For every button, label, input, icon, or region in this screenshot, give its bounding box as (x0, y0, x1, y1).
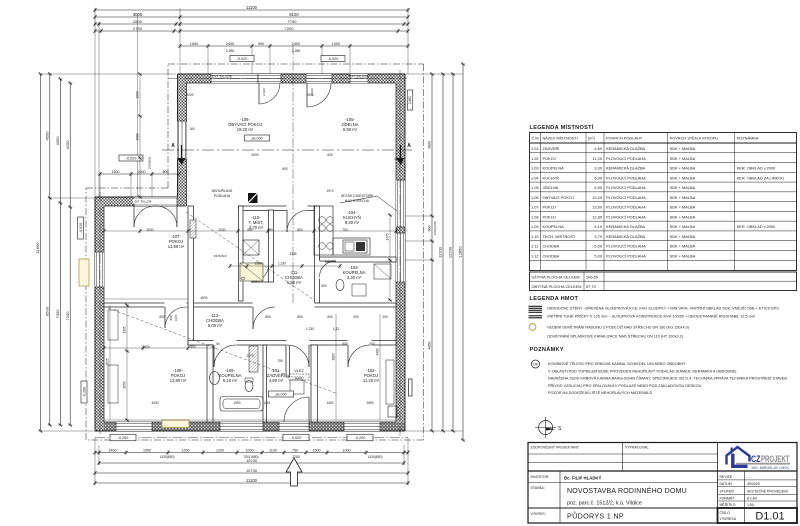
corner fixture room 102 (388, 406, 397, 417)
svg-text:630: 630 (327, 153, 333, 157)
svg-text:1260(1060): 1260(1060) (433, 221, 437, 235)
svg-text:19,20 m²: 19,20 m² (237, 127, 254, 132)
svg-text:PŮDORYS 1.NP: PŮDORYS 1.NP (567, 512, 624, 521)
svg-text:DB: DB (533, 363, 537, 367)
svg-text:1.03: 1.03 (531, 166, 539, 171)
svg-text:PLOVOUCÍ PODLAHA: PLOVOUCÍ PODLAHA (606, 205, 646, 210)
svg-text:VLEZ: VLEZ (294, 369, 304, 373)
svg-text:13,90 m²: 13,90 m² (168, 244, 185, 249)
svg-text:8100: 8100 (289, 12, 299, 17)
axis lines (168, 78, 407, 80)
svg-text:500: 500 (321, 284, 327, 288)
svg-text:NEHOŘLAVÁ: NEHOŘLAVÁ (212, 188, 233, 193)
interior wall vert 109|101 (263, 345, 267, 422)
interior wall vert 107|112 (188, 206, 194, 345)
svg-text:1.07: 1.07 (531, 205, 539, 210)
svg-text:VĚTRÁNÍ: VĚTRÁNÍ (213, 253, 226, 258)
shower tech room (240, 263, 263, 281)
svg-text:-0,020: -0,020 (126, 156, 137, 160)
svg-text:2625: 2625 (106, 358, 110, 365)
svg-text:5,50 m²: 5,50 m² (287, 280, 302, 285)
svg-text:POKOJ: POKOJ (543, 214, 556, 219)
svg-text:3,30 m²: 3,30 m² (347, 275, 362, 280)
svg-text:5x: 5x (216, 342, 220, 346)
svg-text:KER. OBKLAD v.2000: KER. OBKLAD v.2000 (737, 224, 776, 229)
door 103 (320, 260, 337, 262)
svg-text:KERAMICKÁ DLAŽBA: KERAMICKÁ DLAŽBA (606, 146, 646, 151)
svg-text:1430(850): 1430(850) (159, 455, 174, 459)
symbol radon circle (529, 324, 536, 331)
svg-text:KUCHYŇ: KUCHYŇ (543, 175, 560, 180)
svg-text:70/60: 70/60 (295, 376, 304, 380)
svg-text:LEGENDA HMOT: LEGENDA HMOT (530, 296, 579, 302)
radiator 109 (249, 346, 258, 372)
svg-text:900: 900 (353, 315, 359, 319)
svg-text:SDK + MALBA: SDK + MALBA (670, 156, 696, 161)
svg-text:-0,280: -0,280 (82, 387, 86, 397)
svg-text:1000: 1000 (343, 448, 351, 452)
svg-text:1970: 1970 (174, 314, 178, 321)
svg-text:NOVOSTAVBA RODINNÉHO DOMU: NOVOSTAVBA RODINNÉHO DOMU (567, 486, 687, 495)
totals table (530, 272, 797, 291)
bottom axis dash-dot (95, 437, 408, 439)
svg-text:SDK + MALBA: SDK + MALBA (670, 253, 696, 258)
svg-text:KERAMICKÁ DLAŽBA: KERAMICKÁ DLAŽBA (606, 166, 646, 171)
svg-text:A: A (171, 143, 175, 149)
svg-text:DATUM: DATUM (720, 482, 732, 486)
svg-text:900: 900 (258, 42, 264, 46)
svg-text:1500(800): 1500(800) (148, 157, 152, 170)
svg-text:3,70: 3,70 (594, 234, 602, 239)
door top 2 opening (306, 74, 332, 83)
notch double door swings (133, 206, 135, 227)
svg-text:PLOVOUCÍ PODLAHA: PLOVOUCÍ PODLAHA (606, 214, 646, 219)
section marker A left (181, 145, 183, 158)
svg-text:8 x A4: 8 x A4 (747, 496, 757, 500)
svg-text:6,90: 6,90 (594, 185, 602, 190)
svg-text:KERAMICKÁ DLAŽBA: KERAMICKÁ DLAŽBA (606, 234, 646, 239)
svg-text:700: 700 (342, 228, 348, 232)
svg-text:ZODPOVĚDNÝ PROJEKTANT:: ZODPOVĚDNÝ PROJEKTANT: (531, 445, 580, 450)
symbol partition (529, 315, 543, 317)
interior wall corridor bottom (188, 341, 396, 346)
svg-text:4250: 4250 (65, 140, 70, 150)
svg-text:±0,000: ±0,000 (251, 136, 263, 140)
svg-text:11600: 11600 (35, 242, 40, 254)
svg-text:3050: 3050 (123, 381, 127, 388)
svg-text:VYPRACOVAL:: VYPRACOVAL: (625, 446, 649, 450)
svg-text:7300: 7300 (55, 309, 60, 319)
door 111 from living (286, 210, 288, 232)
svg-text:2750: 2750 (133, 26, 143, 31)
svg-text:800: 800 (297, 228, 303, 232)
svg-text:4630: 4630 (200, 296, 207, 300)
svg-text:poz. parc.č. 1512/2, k.ú. Vild: poz. parc.č. 1512/2, k.ú. Vildice (567, 501, 642, 507)
svg-text:12,80: 12,80 (592, 214, 603, 219)
svg-text:1500: 1500 (112, 170, 120, 174)
svg-text:1.02: 1.02 (531, 156, 539, 161)
svg-text:200: 200 (369, 342, 375, 346)
section marker A right (400, 145, 402, 158)
svg-text:-0,020: -0,020 (237, 57, 248, 61)
ext zaluzie box right wall (409, 379, 413, 396)
svg-text:1305: 1305 (123, 326, 127, 333)
svg-text:ODTAH DIGESTOŘE: ODTAH DIGESTOŘE (341, 193, 374, 198)
svg-text:REVIZE: REVIZE (720, 475, 733, 479)
svg-text:OBYTNÁ PLOCHA CELKEM: OBYTNÁ PLOCHA CELKEM (532, 284, 582, 289)
svg-text:7700: 7700 (288, 19, 298, 24)
svg-text:2690: 2690 (366, 401, 373, 405)
svg-text:3800: 3800 (332, 353, 336, 360)
svg-text:13,90: 13,90 (592, 205, 603, 210)
svg-text:600: 600 (282, 167, 288, 171)
svg-text:SDK + MALBA: SDK + MALBA (670, 234, 696, 239)
svg-text:3430: 3430 (151, 401, 158, 405)
svg-text:1970: 1970 (326, 189, 333, 193)
svg-text:11700: 11700 (438, 246, 443, 258)
svg-text:POZNÁMKY: POZNÁMKY (530, 346, 564, 353)
svg-text:1.06: 1.06 (531, 195, 539, 200)
svg-text:1000: 1000 (190, 42, 198, 46)
svg-text:1.04: 1.04 (531, 175, 539, 180)
sink 109 (210, 372, 220, 385)
svg-text:KOUPELNA: KOUPELNA (543, 166, 565, 171)
svg-text:ING. MIROSLAV CHOC: ING. MIROSLAV CHOC (752, 466, 791, 470)
svg-text:SDK + MALBA: SDK + MALBA (670, 166, 696, 171)
svg-text:2,280: 2,280 (292, 49, 301, 53)
svg-text:PLOVOUCÍ PODLAHA: PLOVOUCÍ PODLAHA (606, 175, 646, 180)
svg-text:19,20: 19,20 (592, 195, 603, 200)
svg-text:3135: 3135 (289, 252, 296, 256)
svg-text:PLOVOUCÍ PODLAHA: PLOVOUCÍ PODLAHA (606, 185, 646, 190)
svg-text:D1.01: D1.01 (755, 511, 784, 523)
svg-text:-0,020: -0,020 (291, 436, 302, 440)
north symbol (539, 421, 553, 435)
svg-text:KER. OBKLAD ZA LINKOU: KER. OBKLAD ZA LINKOU (737, 175, 785, 180)
svg-text:JÍDELNA: JÍDELNA (543, 185, 559, 190)
furniture rects (108, 310, 118, 340)
svg-text:PLOVOUCÍ PODLAHA: PLOVOUCÍ PODLAHA (606, 156, 646, 161)
svg-text:V OBLASTI POD TOPIDLEM BUDE PR: V OBLASTI POD TOPIDLEM BUDE PROVEDEN NEH… (548, 368, 737, 373)
svg-text:11100: 11100 (246, 478, 258, 483)
svg-text:PŘÍVOD VZDUCHU PRO SPALOVÁNÍ V: PŘÍVOD VZDUCHU PRO SPALOVÁNÍ V PODLAZE N… (548, 383, 702, 388)
svg-text:750: 750 (292, 448, 298, 452)
svg-text:1500: 1500 (136, 133, 140, 140)
svg-text:2030: 2030 (218, 228, 225, 232)
interior wall kitchen|103 (320, 257, 397, 262)
svg-text:NAVRŽENA JSOU KRBOVÁ KAMNA BAA: NAVRŽENA JSOU KRBOVÁ KAMNA BAAS+SOHN ČÍM… (548, 376, 787, 381)
svg-text:900: 900 (342, 342, 348, 346)
svg-text:SKUTEČNÉ PROVEDENÍ: SKUTEČNÉ PROVEDENÍ (747, 488, 788, 493)
svg-text:4800: 4800 (428, 141, 432, 149)
washer zadveri (290, 380, 304, 394)
interior wall top of 110/111 (239, 206, 315, 211)
legend table (530, 133, 797, 271)
svg-text:1,230: 1,230 (306, 327, 314, 331)
svg-text:800: 800 (169, 315, 173, 320)
bath 103 fixtures (336, 280, 344, 291)
svg-text:NÁZEV MÍSTNOSTI: NÁZEV MÍSTNOSTI (543, 136, 578, 141)
svg-text:1200: 1200 (216, 448, 224, 452)
svg-text:160: 160 (189, 127, 195, 131)
exterior wall left lower (95, 197, 104, 431)
svg-text:SDK + MALBA: SDK + MALBA (670, 195, 696, 200)
svg-text:SDK + MALBA: SDK + MALBA (670, 214, 696, 219)
svg-text:1430(850): 1430(850) (367, 455, 382, 459)
svg-text:FORMÁT: FORMÁT (720, 496, 736, 500)
left dimension columns (40, 74, 42, 431)
interior vertical dim chains (126, 305, 128, 420)
svg-text:ZÁDVEŘÍ: ZÁDVEŘÍ (543, 146, 561, 151)
svg-text:57,70: 57,70 (586, 284, 597, 289)
svg-text:STAVBA:: STAVBA: (531, 486, 545, 490)
svg-text:2000: 2000 (186, 93, 193, 97)
top dimension rows (95, 9, 408, 11)
svg-text:CZ: CZ (751, 454, 761, 465)
svg-text:Bc. FILIP HLADKÝ: Bc. FILIP HLADKÝ (564, 476, 602, 481)
svg-text:4850: 4850 (428, 342, 432, 350)
svg-text:OBVODOVÉ STĚNY –DŘEVĚNÁ SLOUPK: OBVODOVÉ STĚNY –DŘEVĚNÁ SLOUPKOVÁ KCE, K… (547, 306, 779, 311)
svg-text:VÝKRESU: VÝKRESU (720, 517, 737, 521)
svg-text:SDK + MALBA: SDK + MALBA (670, 146, 696, 151)
svg-text:8500: 8500 (44, 306, 49, 316)
svg-text:1500: 1500 (138, 170, 146, 174)
svg-text:1500: 1500 (313, 448, 321, 452)
kitchen sink (343, 240, 367, 253)
thick box cislo vykresu (718, 508, 798, 523)
svg-text:PLOVOUCÍ PODLAHA: PLOVOUCÍ PODLAHA (606, 253, 646, 258)
svg-text:4500: 4500 (44, 131, 49, 141)
interior wall vert 108|109 (207, 345, 213, 422)
svg-text:10230: 10230 (246, 458, 258, 463)
svg-text:1450: 1450 (326, 401, 333, 405)
exterior wall right (396, 74, 405, 431)
svg-text:POZNÁMKA: POZNÁMKA (737, 136, 759, 141)
svg-text:PLOVOUCÍ PODLAHA: PLOVOUCÍ PODLAHA (606, 244, 646, 249)
window top 2 (ext zaluzie) (350, 74, 368, 83)
door 109 (213, 345, 215, 367)
svg-text:600: 600 (247, 228, 253, 232)
door top 1 opening (258, 74, 281, 83)
svg-text:KOUPELNA: KOUPELNA (543, 224, 565, 229)
svg-text:-0,200: -0,200 (355, 436, 366, 440)
entrance arrow (286, 458, 302, 486)
svg-text:05/2025: 05/2025 (747, 482, 760, 486)
svg-text:-0,020: -0,020 (79, 223, 83, 233)
interior wall 111|kitchen (315, 206, 320, 303)
door 102 (347, 345, 349, 367)
svg-text:1075: 1075 (246, 354, 253, 358)
svg-text:6000: 6000 (394, 157, 401, 161)
svg-text:11,20 m²: 11,20 m² (363, 378, 380, 383)
door top 1 swing (258, 83, 260, 104)
svg-text:200: 200 (382, 315, 388, 319)
interior wall corridor top (104, 303, 396, 307)
svg-text:2400: 2400 (226, 42, 234, 46)
svg-text:106,50: 106,50 (586, 275, 599, 280)
svg-text:POVRCH STĚN A STROPU: POVRCH STĚN A STROPU (670, 136, 719, 141)
svg-text:6,30: 6,30 (594, 175, 602, 180)
svg-text:ODVĚTRÁNÍ SPLAŠKOVÉ KANALIZACE: ODVĚTRÁNÍ SPLAŠKOVÉ KANALIZACE NAD STŘEC… (547, 334, 684, 339)
svg-text:7200: 7200 (285, 26, 295, 31)
svg-text:1.05: 1.05 (531, 185, 539, 190)
svg-text:CHODBA: CHODBA (543, 244, 560, 249)
svg-text:1380: 1380 (254, 262, 261, 266)
svg-text:1470: 1470 (386, 233, 390, 240)
svg-text:6,90 m²: 6,90 m² (343, 127, 358, 132)
svg-text:1.09: 1.09 (531, 224, 539, 229)
svg-text:TECH. MÍSTNOST: TECH. MÍSTNOST (543, 234, 576, 239)
svg-text:12850: 12850 (458, 246, 463, 258)
svg-text:4300: 4300 (55, 136, 60, 146)
svg-text:POZOR NA DODRŽENÍ LÍŠTĚ NEHOŘL: POZOR NA DODRŽENÍ LÍŠTĚ NEHOŘLAVÝCH MATE… (548, 390, 653, 395)
svg-text:1,230: 1,230 (278, 262, 286, 266)
svg-text:1250: 1250 (182, 448, 190, 452)
wall outlines (178, 73, 406, 75)
svg-text:2800: 2800 (133, 19, 143, 24)
entrance door swing (308, 397, 310, 422)
svg-text:VÝKRES:: VÝKRES: (531, 512, 546, 516)
svg-text:2400: 2400 (292, 42, 300, 46)
interior wall vert 101|102 (311, 345, 318, 422)
small interior dim lines (104, 230, 396, 232)
section line A-A (162, 149, 412, 151)
kitchen counter L (314, 206, 333, 255)
svg-text:1.01: 1.01 (531, 146, 539, 151)
svg-text:NAD STŘECHU: NAD STŘECHU (345, 198, 370, 203)
exterior wall top (178, 74, 406, 83)
svg-text:11,20: 11,20 (593, 156, 603, 161)
svg-text:900: 900 (428, 226, 432, 232)
windows right wall (396, 180, 405, 227)
interior wall 110|111 (269, 210, 274, 282)
notch top dims (100, 173, 179, 175)
svg-text:1.10: 1.10 (531, 234, 539, 239)
svg-text:1950: 1950 (233, 401, 240, 405)
svg-text:10730: 10730 (246, 468, 258, 473)
svg-text:1500: 1500 (143, 448, 151, 452)
svg-text:2,020: 2,020 (262, 88, 266, 96)
svg-text:SDK + MALBA: SDK + MALBA (670, 205, 696, 210)
shower 103 (374, 264, 391, 279)
svg-text:POKOJ: POKOJ (543, 156, 556, 161)
svg-text:3,30: 3,30 (594, 166, 602, 171)
diagonal leaders (186, 212, 314, 300)
door 110 (251, 281, 269, 283)
title block (528, 443, 797, 524)
svg-text:5,50: 5,50 (594, 244, 602, 249)
svg-text:800: 800 (163, 170, 169, 174)
svg-text:12200: 12200 (448, 246, 453, 258)
svg-text:2,860: 2,860 (408, 96, 412, 105)
left boxed labels (78, 217, 84, 239)
svg-text:4,60: 4,60 (594, 146, 602, 151)
svg-text:SDK + MALBA: SDK + MALBA (670, 224, 696, 229)
door top 2 swing (306, 83, 308, 107)
svg-text:KERAMICKÁ DLAŽBA: KERAMICKÁ DLAŽBA (606, 224, 646, 229)
svg-text:800: 800 (159, 315, 165, 319)
svg-text:±0,000: ±0,000 (275, 392, 287, 396)
windows bottom wall (116, 422, 152, 431)
svg-text:800: 800 (327, 315, 333, 319)
svg-text:1000: 1000 (246, 448, 254, 452)
svg-text:1:50: 1:50 (747, 503, 754, 507)
notch double-door opening (134, 197, 177, 206)
svg-text:INVESTOR:: INVESTOR: (531, 475, 550, 479)
svg-text:5,10: 5,10 (594, 224, 602, 229)
svg-text:2,280: 2,280 (226, 49, 235, 53)
svg-text:ČÍSLO: ČÍSLO (720, 510, 731, 515)
svg-text:9,30 m²: 9,30 m² (345, 220, 360, 225)
svg-text:- - -: - - - (747, 475, 753, 479)
svg-text:5,00: 5,00 (594, 253, 602, 258)
svg-text:1400: 1400 (109, 448, 117, 452)
svg-text:UŽITNÁ PLOCHA CELKEM: UŽITNÁ PLOCHA CELKEM (532, 275, 580, 280)
svg-text:EXT. ŽALUZIE: EXT. ŽALUZIE (349, 74, 369, 79)
right dimension columns (431, 74, 433, 431)
exterior wall notch top (95, 197, 178, 206)
window top 1 (ext zaluzie) (211, 74, 258, 83)
svg-text:1500: 1500 (136, 91, 140, 98)
roof overhang dashed outline (168, 63, 424, 65)
exterior wall bottom (95, 422, 405, 431)
stove burners (319, 217, 326, 224)
door 107 from corridor (164, 307, 166, 328)
svg-text:800: 800 (297, 315, 303, 319)
window left-upper wall (178, 121, 187, 160)
svg-text:POVRCH PODLAHY: POVRCH PODLAHY (606, 136, 643, 141)
window left-lower 1 (95, 252, 104, 287)
svg-text:PROJEKT: PROJEKT (761, 454, 790, 465)
CZ PROJEKT logo (727, 447, 750, 465)
chimney (248, 193, 258, 203)
bathtub 109 (220, 397, 263, 412)
svg-text:CHODBA: CHODBA (543, 253, 560, 258)
door 101 (308, 345, 310, 367)
svg-text:1.12: 1.12 (531, 253, 539, 258)
svg-text:3000: 3000 (133, 12, 143, 17)
svg-text:755: 755 (277, 359, 283, 363)
svg-text:1/25: 1/25 (264, 401, 270, 405)
exterior wall left upper (178, 74, 187, 206)
svg-text:SDK + MALBA: SDK + MALBA (670, 244, 696, 249)
svg-text:2,020: 2,020 (310, 88, 314, 96)
svg-text:LEGENDA MÍSTNOSTÍ: LEGENDA MÍSTNOSTÍ (530, 123, 594, 131)
svg-text:12,80 m²: 12,80 m² (170, 378, 187, 383)
svg-text:1000: 1000 (332, 42, 340, 46)
bottom dimension rows (95, 452, 408, 454)
svg-text:600: 600 (190, 345, 196, 349)
svg-text:800: 800 (265, 315, 271, 319)
svg-text:1.11: 1.11 (531, 244, 538, 249)
ext zaluzie label on notch wall (133, 199, 153, 204)
svg-text:MĚŘÍTKO: MĚŘÍTKO (720, 502, 736, 507)
radiator living room (190, 220, 196, 238)
svg-text:SDK + MALBA: SDK + MALBA (670, 185, 696, 190)
svg-text:POKOJ: POKOJ (543, 205, 556, 210)
door 112 a (252, 307, 254, 329)
toilet 109 (245, 381, 253, 392)
svg-text:STUPEŇ: STUPEŇ (720, 489, 735, 493)
svg-text:Č.M.: Č.M. (532, 136, 540, 141)
svg-text:7200: 7200 (65, 311, 70, 321)
svg-text:PLOVOUCÍ PODLAHA: PLOVOUCÍ PODLAHA (606, 195, 646, 200)
svg-text:SDK + MALBA: SDK + MALBA (670, 175, 696, 180)
boiler tech room (243, 240, 259, 255)
symbol ext wall (529, 305, 543, 307)
svg-text:3030: 3030 (146, 228, 153, 232)
boxed elevation labels top (230, 56, 254, 62)
